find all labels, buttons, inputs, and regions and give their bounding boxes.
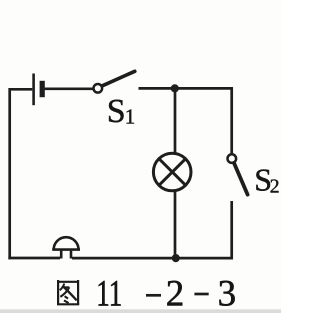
battery cell long plate (positive) bbox=[32, 74, 35, 106]
wire lamp branch lower bbox=[174, 191, 177, 259]
svg-text:11: 11 bbox=[96, 274, 122, 313]
lamp L (circle with X) bbox=[153, 153, 191, 191]
wire right vertical lower: S2 to bottom corner bbox=[230, 201, 233, 259]
wire battery to switch S1 bbox=[45, 87, 94, 90]
bottom scan edge band bbox=[0, 309, 281, 313]
switch S1 pivot circle bbox=[94, 84, 103, 93]
electric bell (dome with neck) bbox=[52, 237, 80, 258]
battery cell short thick plate (negative) bbox=[40, 81, 45, 97]
switch S2 pivot circle bbox=[228, 154, 237, 163]
caption: hand-drawn CJK character 图 (tu, "figure") bbox=[57, 280, 79, 305]
wire bottom-right: bell to corner bbox=[72, 257, 233, 260]
svg-text:2: 2 bbox=[270, 176, 280, 198]
svg-text:S: S bbox=[107, 93, 126, 130]
switch S1 blade bbox=[102, 71, 135, 86]
wire lamp branch upper bbox=[174, 88, 177, 153]
junction node bottom (lamp branch / bottom wire) bbox=[172, 254, 180, 262]
wire top-left: battery to left corner bbox=[9, 88, 32, 91]
svg-text:2: 2 bbox=[166, 274, 185, 313]
junction node top (lamp branch / top wire) bbox=[171, 84, 179, 92]
wire bottom-left: corner to bell bbox=[8, 257, 60, 260]
svg-text:1: 1 bbox=[125, 105, 136, 129]
wire left vertical bbox=[8, 88, 11, 259]
wire right vertical upper: top corner to S2 bbox=[230, 87, 233, 154]
svg-text:3: 3 bbox=[218, 274, 237, 313]
wire top: switch S1 to right corner bbox=[139, 87, 233, 90]
switch S2 blade bbox=[234, 163, 248, 195]
